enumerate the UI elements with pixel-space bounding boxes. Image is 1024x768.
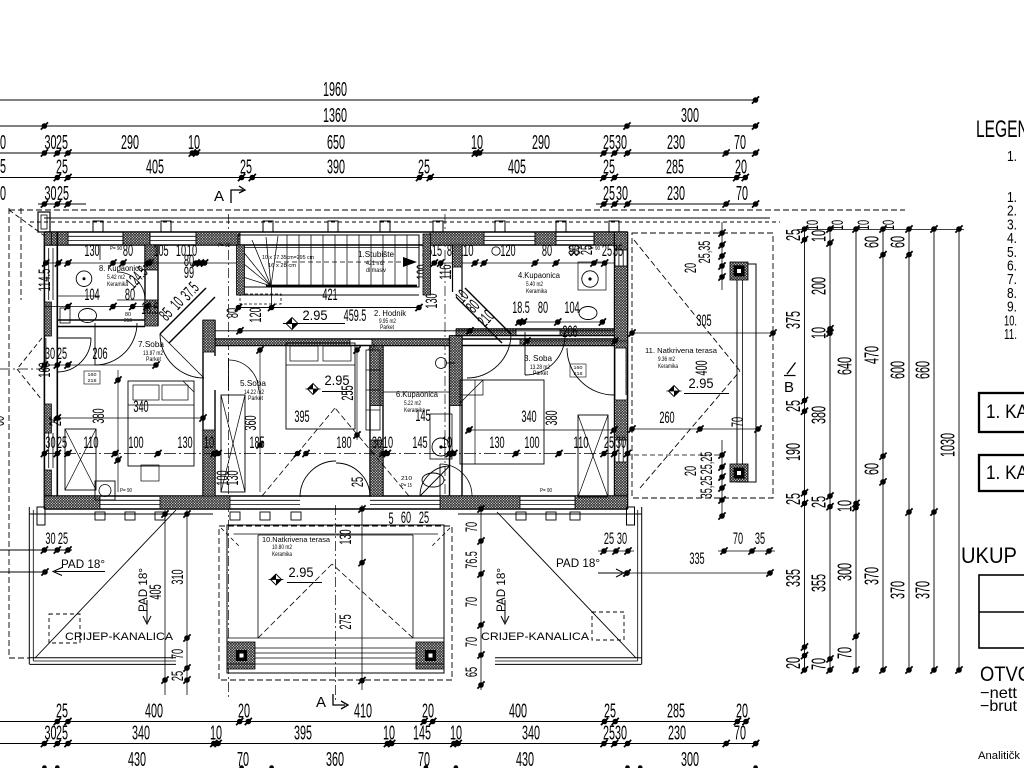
svg-text:230: 230	[667, 183, 685, 205]
legend box 1. KAT	[979, 393, 1024, 432]
svg-text:P= 90: P= 90	[540, 488, 552, 494]
svg-text:145: 145	[412, 433, 427, 452]
wardrobe room3	[578, 415, 608, 497]
exterior wall bottom outline	[44, 496, 627, 509]
bathroom6 toilet	[422, 473, 444, 487]
svg-text:285: 285	[666, 157, 684, 179]
svg-text:120: 120	[500, 241, 515, 260]
svg-text:340: 340	[133, 397, 148, 416]
vertical dim line 255 room5	[353, 346, 360, 440]
bathroom8 shower walls	[57, 245, 100, 296]
svg-text:395: 395	[294, 407, 309, 426]
left wall rot dims	[35, 269, 54, 378]
section marker A top	[214, 186, 245, 205]
bath4 left wall	[453, 245, 463, 297]
svg-text:180: 180	[336, 433, 351, 452]
hall dim line 459.5	[215, 327, 614, 334]
stair side dims	[184, 251, 265, 323]
terrace 10 column right	[416, 642, 444, 669]
svg-text:206: 206	[92, 344, 107, 363]
svg-text:5: 5	[0, 156, 6, 178]
svg-text:Parket: Parket	[533, 370, 548, 377]
bed room7	[128, 381, 194, 466]
svg-text:2.95: 2.95	[289, 565, 314, 580]
bottom wall windows and doors	[100, 500, 575, 504]
svg-text:10: 10	[471, 132, 483, 154]
terrace 11 rotated dims	[681, 241, 747, 499]
svg-text:10: 10	[828, 220, 847, 230]
svg-text:25: 25	[57, 183, 69, 205]
svg-text:600: 600	[888, 361, 910, 379]
right wall window glazing	[619, 250, 623, 462]
interior dim row left 30 25 206	[41, 344, 160, 369]
top dimension row 5 right: 25,30,230,70	[596, 183, 759, 208]
roof left corner pipe	[37, 507, 45, 525]
svg-text:300: 300	[681, 105, 699, 127]
room label 10. Natkrivena terasa	[262, 535, 331, 558]
eave dashed outline left vertical	[8, 208, 10, 658]
roof left outline	[29, 507, 213, 664]
eave dashed outline top horizontal	[9, 209, 905, 211]
axis dash-dot vertical left	[228, 214, 230, 700]
svg-text:25: 25	[783, 400, 805, 412]
roof right small dims	[598, 529, 775, 555]
svg-text:10: 10	[809, 230, 831, 242]
wardrobe room7 left	[65, 429, 96, 490]
roof right outline	[458, 507, 642, 664]
svg-text:285: 285	[667, 701, 685, 723]
room label 6. Kupaonica	[396, 390, 439, 414]
svg-text:200: 200	[809, 277, 831, 295]
svg-text:25: 25	[603, 183, 615, 205]
roof hip dash left lower	[17, 369, 42, 400]
svg-text:Keramika: Keramika	[526, 288, 547, 295]
svg-text:10: 10	[879, 220, 898, 230]
svg-text:11.: 11.	[1004, 326, 1017, 343]
svg-text:160: 160	[88, 372, 97, 378]
svg-text:30: 30	[616, 183, 628, 205]
svg-text:10: 10	[442, 433, 452, 452]
svg-text:0: 0	[0, 132, 6, 154]
svg-text:25: 25	[57, 344, 67, 363]
bath8 door note	[124, 312, 132, 324]
left wall hatched segments	[44, 232, 51, 509]
svg-text:25: 25	[168, 671, 187, 681]
svg-text:30: 30	[616, 433, 626, 452]
svg-text:P= 90: P= 90	[110, 246, 122, 252]
top wall interior dim line left	[42, 259, 240, 266]
svg-text:130: 130	[177, 433, 192, 452]
svg-text:650: 650	[327, 132, 345, 154]
bath6 interior line	[383, 391, 449, 393]
svg-text:160: 160	[574, 365, 583, 371]
svg-text:70: 70	[734, 132, 746, 154]
svg-text:100: 100	[524, 433, 539, 452]
svg-text:300: 300	[835, 563, 857, 581]
svg-text:375: 375	[783, 311, 805, 329]
bath8 dims	[84, 285, 158, 318]
right dim chain 2	[809, 225, 834, 673]
svg-text:210: 210	[401, 476, 412, 482]
svg-text:25: 25	[56, 701, 68, 723]
roof left PAD 18 label	[0, 559, 105, 576]
right chains top 10 labels	[803, 220, 898, 230]
svg-text:dl masiv: dl masiv	[366, 267, 387, 274]
svg-text:405: 405	[146, 157, 164, 179]
svg-text:130: 130	[489, 433, 504, 452]
terrace 10 column left	[227, 642, 255, 669]
legend box 2 1. KAT	[979, 455, 1024, 491]
svg-text:25: 25	[419, 508, 429, 527]
svg-text:104: 104	[564, 298, 579, 317]
svg-text:P= 90: P= 90	[120, 488, 132, 494]
svg-text:130: 130	[84, 241, 99, 260]
svg-text:18.5: 18.5	[512, 298, 530, 317]
bathroom4 toilet	[579, 307, 597, 320]
eave dashed bottom-left corner	[9, 657, 30, 659]
svg-text:218: 218	[574, 371, 583, 377]
svg-text:80: 80	[538, 298, 548, 317]
svg-text:25,35: 25,35	[695, 241, 714, 264]
roof left hip diagonal	[35, 510, 176, 658]
door bath6	[420, 466, 450, 496]
svg-text:130: 130	[336, 529, 355, 544]
svg-text:PAD 18°: PAD 18°	[556, 558, 600, 570]
interior dim 180 bath4 rot	[565, 245, 596, 255]
right wall hatched segments	[615, 232, 628, 509]
room5 wardrobe	[366, 350, 380, 430]
svg-text:255: 255	[338, 385, 357, 400]
top dimension row 1 total 1960	[0, 79, 759, 104]
svg-text:30: 30	[372, 433, 382, 452]
svg-text:Keramika: Keramika	[658, 364, 679, 370]
svg-text:Parket: Parket	[248, 395, 263, 402]
door note 210 diag	[367, 343, 378, 354]
svg-text:3. Soba: 3. Soba	[524, 353, 552, 363]
svg-text:360: 360	[241, 415, 260, 430]
svg-text:Keramika: Keramika	[272, 552, 293, 558]
svg-text:405: 405	[508, 157, 526, 179]
svg-text:5: 5	[388, 509, 393, 528]
legend summary table	[979, 575, 1024, 648]
top-left corner chimney	[38, 212, 50, 232]
svg-text:390: 390	[327, 157, 345, 179]
svg-text:10: 10	[204, 433, 214, 452]
terrace 11 dim 260	[628, 408, 761, 433]
svg-text:P= 15: P= 15	[401, 483, 412, 489]
svg-text:70: 70	[734, 723, 746, 745]
bottom dimension row 2	[0, 723, 759, 748]
svg-text:10: 10	[188, 132, 200, 154]
room label 3. Soba	[524, 353, 552, 377]
svg-text:25: 25	[56, 723, 68, 745]
terrace 11 dim 305	[628, 311, 776, 337]
svg-text:25: 25	[603, 132, 615, 154]
svg-text:20: 20	[238, 701, 250, 723]
svg-text:640: 640	[835, 357, 857, 375]
svg-text:430: 430	[516, 749, 534, 768]
svg-text:A: A	[214, 188, 224, 205]
svg-text:25: 25	[603, 723, 615, 745]
room5 roof projection dashed right	[335, 408, 409, 496]
svg-text:30: 30	[45, 344, 55, 363]
right dim chain 1	[783, 225, 808, 673]
svg-text:110: 110	[83, 433, 98, 452]
room7 nightstand	[141, 465, 159, 481]
wall room7-room5 vertical	[203, 320, 215, 496]
svg-text:2. Hodnik: 2. Hodnik	[374, 309, 407, 318]
svg-text:70: 70	[733, 529, 743, 548]
svg-text:130: 130	[422, 293, 441, 308]
svg-text:230: 230	[668, 723, 686, 745]
window sill tabs top wall	[93, 221, 619, 232]
stair width dim 421	[235, 285, 423, 311]
roof right hip diagonal	[497, 512, 636, 658]
left cut dimension labels	[0, 132, 6, 205]
svg-text:206: 206	[562, 322, 577, 341]
svg-text:459.5: 459.5	[344, 306, 367, 325]
svg-text:360: 360	[326, 749, 344, 768]
svg-text:290: 290	[121, 132, 139, 154]
svg-text:65: 65	[462, 667, 481, 677]
terrace 10 corner hip dash right	[431, 528, 450, 547]
section marker A bottom	[316, 694, 348, 711]
wall bathroom8 right vertical	[145, 245, 158, 326]
svg-text:15: 15	[432, 241, 442, 260]
svg-text:145: 145	[413, 723, 431, 745]
roof centre PAD 18 rotated left	[138, 568, 151, 624]
room interior dims	[0, 385, 561, 430]
terrace 10 step dims	[388, 508, 429, 528]
bathroom6 washbasin	[430, 358, 455, 460]
svg-text:76.5: 76.5	[462, 551, 481, 569]
terrace 10 dim chain	[336, 505, 366, 690]
svg-text:400: 400	[509, 701, 527, 723]
svg-text:25: 25	[604, 433, 614, 452]
svg-text:20: 20	[735, 157, 747, 179]
svg-text:70: 70	[835, 647, 857, 659]
eave dashed inner left vertical	[20, 208, 22, 300]
svg-text:25: 25	[56, 157, 68, 179]
svg-text:300: 300	[681, 749, 699, 768]
svg-text:1. KA: 1. KA	[986, 463, 1024, 484]
windows in top wall	[68, 232, 594, 245]
svg-text:70: 70	[462, 597, 481, 607]
svg-text:60: 60	[862, 463, 884, 475]
stair note text	[262, 255, 314, 269]
right dim chain 3	[835, 225, 860, 673]
top dimension row 4	[0, 157, 749, 182]
exterior wall right outline	[615, 232, 628, 509]
svg-text:10: 10	[803, 220, 822, 230]
svg-text:114.5: 114.5	[35, 269, 54, 292]
svg-text:10: 10	[450, 723, 462, 745]
svg-text:CRIJEP-KANALICA: CRIJEP-KANALICA	[481, 631, 590, 643]
svg-text:25: 25	[604, 701, 616, 723]
svg-text:P= 90: P= 90	[218, 243, 230, 249]
svg-text:70: 70	[462, 637, 481, 647]
room3 bed	[460, 380, 544, 464]
stair right wall	[237, 234, 431, 295]
top dimension row 3	[0, 132, 759, 157]
door note 160 218 left	[84, 371, 100, 384]
svg-text:30: 30	[617, 529, 627, 548]
terrace door right unit	[440, 464, 472, 496]
terrace 10 dashed outline	[219, 526, 452, 680]
svg-text:Analitičk: Analitičk	[978, 750, 1021, 762]
svg-text:290: 290	[532, 132, 550, 154]
svg-text:370: 370	[862, 567, 884, 585]
svg-text:10: 10	[383, 723, 395, 745]
room label 1. Stubiste	[358, 250, 395, 274]
terrace 10 steps	[227, 648, 444, 664]
svg-text:10: 10	[809, 327, 831, 339]
svg-text:218: 218	[88, 378, 97, 384]
svg-text:275: 275	[336, 614, 355, 629]
roof left dim chain 310	[168, 510, 191, 695]
svg-text:380: 380	[542, 410, 561, 425]
svg-text:30: 30	[45, 132, 57, 154]
room label 7. Soba	[138, 339, 164, 363]
svg-text:230: 230	[667, 132, 685, 154]
svg-text:340: 340	[522, 723, 540, 745]
room label 4. Kupaonica	[518, 271, 561, 295]
svg-text:11. Natkrivena terasa: 11. Natkrivena terasa	[645, 346, 718, 355]
room label 8. Kupaonica	[99, 264, 144, 288]
svg-text:1. KA: 1. KA	[986, 402, 1024, 423]
svg-text:370: 370	[913, 581, 935, 599]
svg-text:1.Stubište: 1.Stubište	[358, 250, 395, 259]
interior dim 210 bath6	[401, 476, 412, 489]
svg-text:70: 70	[728, 417, 747, 427]
right chains top connector line	[797, 229, 964, 231]
svg-text:80: 80	[223, 308, 242, 318]
svg-text:10.Natkrivena terasa: 10.Natkrivena terasa	[262, 535, 331, 544]
svg-text:305: 305	[696, 311, 711, 330]
svg-text:35,25: 35,25	[697, 476, 716, 499]
svg-text:1.: 1.	[1007, 148, 1017, 165]
svg-text:10 x 17.35cm=295 cm: 10 x 17.35cm=295 cm	[262, 255, 314, 261]
svg-text:5.40 m2: 5.40 m2	[526, 281, 543, 288]
left wall window glazing lower	[49, 433, 53, 468]
terrace 10 inner top line	[234, 533, 439, 535]
svg-text:260: 260	[659, 408, 674, 427]
svg-text:335: 335	[783, 569, 805, 587]
svg-text:120: 120	[246, 307, 265, 322]
top wall hatched segments	[44, 232, 627, 245]
interior dim small 100 130 left	[213, 470, 242, 485]
vertical dim line 360 room5	[256, 346, 263, 492]
svg-text:0: 0	[0, 183, 6, 205]
legend numbered list 1-11	[1004, 189, 1017, 343]
svg-text:25: 25	[240, 157, 252, 179]
diagonal door left	[160, 334, 204, 378]
svg-text:20: 20	[783, 657, 805, 669]
svg-text:210: 210	[124, 318, 132, 324]
eave dashed top second	[30, 221, 780, 223]
wall room5-bath6 vertical	[370, 346, 383, 497]
right dim chain 5	[888, 225, 913, 673]
room7 dim 340 line	[54, 414, 207, 421]
elevation marker terrace10	[269, 565, 323, 585]
exterior wall left outline	[44, 232, 57, 509]
svg-text:421 m2: 421 m2	[366, 260, 384, 267]
svg-text:30: 30	[45, 723, 57, 745]
room label 5. Soba	[240, 378, 266, 402]
svg-text:LEGEND: LEGEND	[976, 116, 1024, 143]
roof centre PAD 18 rotated right	[496, 568, 509, 624]
terrace 11 inner dashed line	[626, 454, 722, 456]
svg-text:25: 25	[418, 157, 430, 179]
terrace 11 dashed outline	[632, 233, 773, 498]
terrace french doors	[300, 461, 370, 497]
bottom dimension row 3	[42, 749, 758, 768]
top dimension row 2: 1360 and 300	[0, 105, 759, 130]
terrace 11 slab edge	[737, 264, 756, 482]
svg-text:70: 70	[237, 749, 249, 768]
stair right rotated dims	[413, 264, 455, 279]
svg-text:30: 30	[45, 529, 55, 548]
terrace 11 roof hip lower	[640, 371, 740, 488]
roof axis dash-dot left	[0, 368, 44, 370]
svg-text:20: 20	[681, 263, 700, 273]
svg-text:A: A	[316, 694, 326, 711]
svg-text:1030: 1030	[938, 433, 960, 457]
svg-text:25: 25	[602, 241, 612, 260]
hallway right dims	[451, 286, 498, 330]
room label 2. Hodnik	[374, 309, 407, 331]
section marker B right	[784, 363, 796, 397]
svg-text:OTVO: OTVO	[980, 663, 1024, 686]
elevation marker hallway	[283, 308, 345, 330]
svg-text:−brut: −brut	[980, 698, 1018, 715]
door bathroom8	[95, 323, 137, 365]
svg-text:190: 190	[783, 443, 805, 461]
roof edge top thin line	[44, 217, 770, 219]
svg-text:400: 400	[692, 360, 711, 375]
washing machine room7	[95, 481, 115, 500]
svg-text:470: 470	[862, 346, 884, 364]
roof left dashed square	[49, 614, 80, 643]
svg-text:130: 130	[223, 470, 242, 485]
svg-text:30: 30	[615, 132, 627, 154]
svg-text:80: 80	[123, 241, 133, 260]
left wall window glazing upper	[49, 248, 53, 300]
interior dim row middle	[41, 433, 631, 457]
top wall interior dims right	[422, 241, 623, 260]
diagonal dims left	[155, 278, 202, 324]
svg-text:25: 25	[577, 245, 596, 255]
svg-text:10.80 m2: 10.80 m2	[272, 545, 293, 551]
svg-text:10: 10	[383, 433, 393, 452]
svg-text:400: 400	[145, 701, 163, 723]
door note 160 218 right	[570, 364, 586, 377]
svg-text:60: 60	[888, 236, 910, 248]
roof right corner pipe	[627, 507, 635, 525]
svg-text:2.95: 2.95	[689, 376, 714, 391]
roof hip dash top-left	[9, 210, 57, 245]
roof hip dash left upper	[17, 338, 42, 369]
wall bath6-room3 vertical	[450, 336, 463, 497]
door room5 from hall	[229, 358, 259, 390]
svg-text:100: 100	[128, 433, 143, 452]
door room3	[525, 332, 565, 375]
svg-text:410: 410	[354, 701, 372, 723]
elevation marker terrace11	[667, 376, 730, 397]
svg-text:25: 25	[58, 529, 68, 548]
svg-text:60: 60	[862, 236, 884, 248]
svg-text:25: 25	[348, 477, 367, 487]
